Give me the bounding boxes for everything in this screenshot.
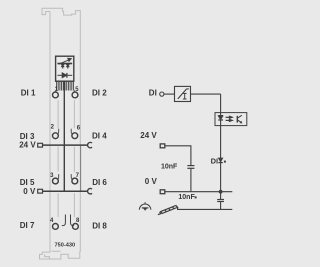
LED arrow [59, 58, 72, 64]
wire 24V across module [43, 144, 88, 146]
svg-text:DI 2: DI 2 [92, 88, 107, 97]
terminal 8 [73, 224, 79, 230]
svg-text:DI: DI [211, 157, 219, 166]
wire: right edge vertical between 24V and 0V rows [80, 145, 82, 191]
svg-text:DI 5: DI 5 [20, 178, 35, 187]
terminal 24V (square) [160, 144, 165, 148]
jumper hooks between terminals 4 and 8 [62, 215, 66, 226]
wire main vertical (DI net) [220, 94, 222, 209]
diode D3 [57, 73, 72, 78]
wire 24V rail [165, 146, 191, 192]
module outline [40, 8, 81, 259]
terminal 3 [53, 178, 59, 184]
wire filter to corner [191, 93, 221, 95]
terminal 5 [72, 92, 78, 98]
terminal DI (circle) [160, 92, 164, 96]
svg-text:10nF: 10nF [178, 194, 195, 201]
internal bus faint lines (left column) [57, 100, 59, 217]
svg-text:750-430: 750-430 [55, 243, 76, 249]
svg-text:0 V: 0 V [23, 187, 36, 196]
svg-text:DI 1: DI 1 [21, 88, 36, 97]
internal bus faint lines (right column) [73, 100, 75, 217]
filter box U2 (/I) [175, 86, 191, 101]
terminal 4 [53, 224, 59, 230]
capacitor C2 [217, 199, 224, 202]
LED D2 [66, 64, 69, 69]
terminal 1 [53, 92, 59, 98]
diode D4 on DI net [218, 158, 226, 163]
svg-text:DI 4: DI 4 [92, 132, 107, 141]
plug terminal 0V (module side) [38, 189, 43, 193]
svg-text:DI 7: DI 7 [20, 221, 35, 230]
hatch ribbon below LED box [55, 81, 74, 91]
wire 0V rail [165, 191, 233, 193]
clamp hook 2 [57, 129, 59, 134]
junction dot DI/0V [219, 190, 223, 194]
hook DI4 (wire end) [88, 142, 92, 147]
functional earth symbol [139, 202, 151, 211]
clamp hook 6 [71, 129, 73, 134]
terminal 2 [53, 133, 59, 139]
svg-text:24 V: 24 V [140, 131, 157, 140]
svg-text:10nF: 10nF [161, 164, 178, 171]
opto arrows [226, 116, 233, 121]
LED box U1 [56, 56, 74, 81]
clamp hook 3 [57, 174, 59, 179]
wire shield rail [177, 208, 232, 210]
terminal 7 [72, 178, 78, 184]
subscript mark C2 [195, 196, 197, 198]
wire: internal bus from LED box down to 0V row [63, 81, 65, 191]
plug terminal 24V (module side) [38, 143, 43, 147]
DIN rail symbol [158, 206, 178, 215]
wire 0V across module [43, 190, 88, 192]
opto LED [218, 116, 223, 121]
opto phototransistor [237, 115, 242, 123]
svg-text:0 V: 0 V [145, 177, 158, 186]
svg-text:DI 6: DI 6 [92, 178, 107, 187]
wire DI to filter [164, 93, 175, 95]
svg-text:DI: DI [149, 89, 157, 98]
clamp hook 7 [71, 174, 73, 179]
svg-text:DI 8: DI 8 [92, 221, 107, 230]
svg-text:DI 3: DI 3 [20, 132, 35, 141]
optocoupler U3 [215, 113, 247, 126]
svg-text:24 V: 24 V [19, 141, 36, 150]
capacitor C1 [187, 165, 194, 168]
terminal 0V (square) [160, 190, 165, 194]
hook DI6 (wire end) [88, 189, 92, 194]
terminal 6 [72, 133, 78, 139]
LED D1 [57, 64, 72, 69]
